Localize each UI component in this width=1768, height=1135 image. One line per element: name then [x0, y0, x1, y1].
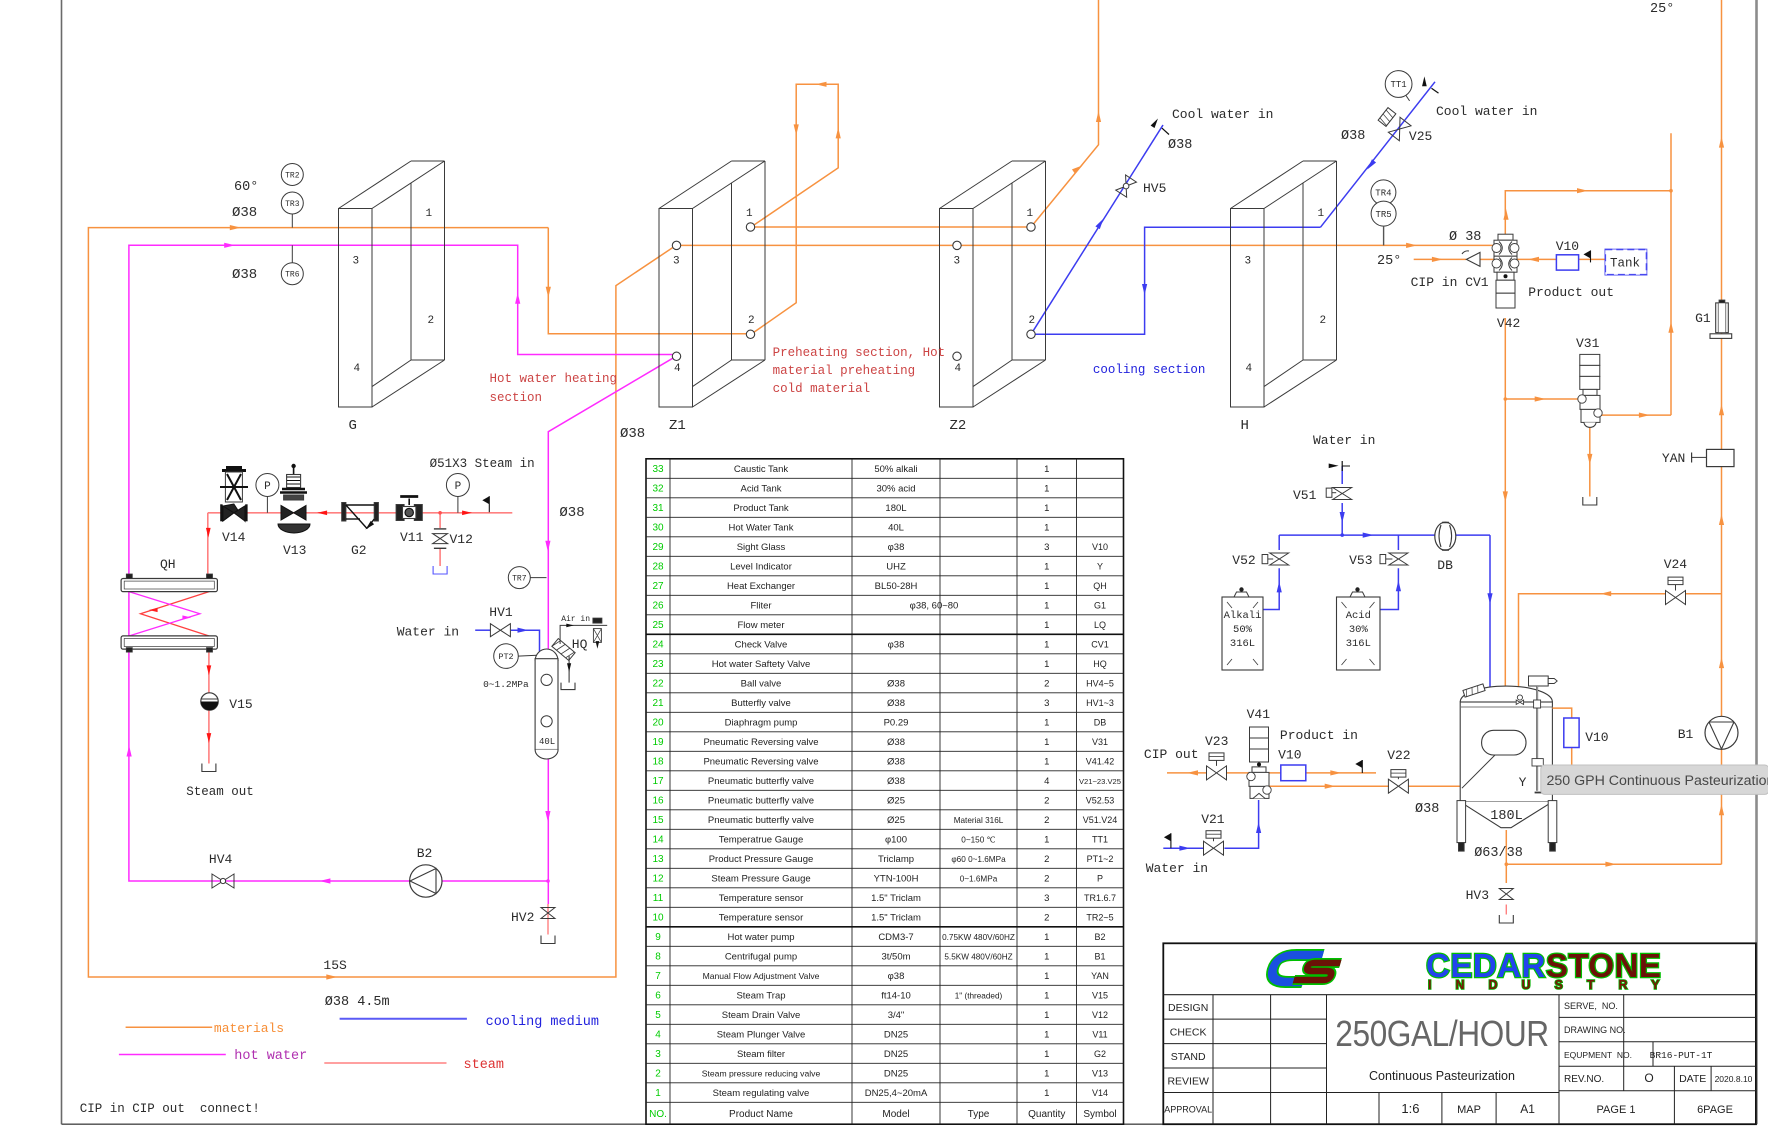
svg-text:Y: Y — [1097, 562, 1103, 572]
svg-text:4: 4 — [955, 363, 962, 375]
svg-text:V23: V23 — [1205, 734, 1228, 749]
svg-text:4: 4 — [674, 363, 681, 375]
pipe: CIP in line — [1414, 258, 1466, 260]
svg-text:DB: DB — [1094, 718, 1107, 728]
valve V21 — [1201, 812, 1225, 855]
alkali tank — [1222, 587, 1263, 670]
svg-text:2: 2 — [1320, 315, 1327, 327]
svg-text:1: 1 — [1044, 581, 1049, 592]
svg-text:SERVE, NO.: SERVE, NO. — [1564, 1001, 1618, 1011]
svg-text:Steam pressure reducing valve: Steam pressure reducing valve — [702, 1069, 821, 1079]
svg-text:4: 4 — [1246, 363, 1253, 375]
svg-text:180L: 180L — [1490, 809, 1522, 824]
tooltip overlay 250GPH — [1541, 765, 1768, 794]
svg-text:0~1.6MPa: 0~1.6MPa — [960, 875, 998, 884]
svg-text:3: 3 — [1044, 698, 1049, 709]
svg-text:50%: 50% — [1233, 624, 1253, 636]
svg-text:1: 1 — [1044, 1030, 1049, 1041]
legend — [119, 1015, 599, 1073]
svg-text:1: 1 — [1044, 1049, 1049, 1060]
svg-text:O: O — [1644, 1071, 1653, 1085]
svg-text:25°: 25° — [1377, 254, 1401, 269]
steam out drain — [202, 764, 216, 772]
svg-text:1" (threaded): 1" (threaded) — [955, 992, 1003, 1001]
pipe: main product line Z1 port3 to V42 — [676, 244, 1494, 246]
svg-text:3: 3 — [353, 256, 360, 268]
heat exchanger G — [339, 161, 445, 434]
flow arrows (steam) — [206, 510, 472, 743]
svg-text:Steam Pressure Gauge: Steam Pressure Gauge — [711, 874, 810, 885]
cool water out arrow+tick — [1151, 107, 1274, 153]
svg-text:4: 4 — [1044, 776, 1049, 787]
svg-text:Fliter: Fliter — [750, 601, 771, 612]
svg-text:LQ: LQ — [1094, 620, 1106, 630]
label hot water heating section — [490, 372, 618, 405]
svg-text:TT1: TT1 — [1092, 835, 1108, 845]
svg-text:3: 3 — [1044, 893, 1049, 904]
svg-text:B1: B1 — [1678, 727, 1694, 742]
svg-text:Product Tank: Product Tank — [733, 503, 789, 514]
svg-text:Continuous Pasteurization: Continuous Pasteurization — [1369, 1069, 1515, 1083]
svg-text:B2: B2 — [417, 846, 433, 861]
svg-text:316L: 316L — [1230, 638, 1255, 650]
svg-text:TR4: TR4 — [1375, 189, 1391, 199]
svg-text:12: 12 — [652, 874, 664, 885]
drain below V12 — [433, 566, 447, 574]
svg-text:Pneumatic butterfly valve: Pneumatic butterfly valve — [708, 796, 814, 807]
svg-text:1: 1 — [1044, 562, 1049, 573]
heat exchanger QH — [121, 557, 217, 652]
svg-text:materials: materials — [214, 1021, 284, 1036]
drain below HV2 — [541, 936, 555, 944]
temperature transmitter TT1 — [1385, 71, 1412, 101]
water inlet flag (V51) — [1329, 461, 1350, 471]
sample flag (product in) — [1355, 760, 1362, 773]
svg-text:steam: steam — [464, 1058, 505, 1073]
valve V12 (steam drain valve) — [433, 529, 473, 548]
svg-text:section: section — [490, 391, 543, 405]
svg-text:40L: 40L — [888, 523, 904, 534]
svg-text:CDM3-7: CDM3-7 — [878, 932, 913, 943]
svg-text:V25: V25 — [1409, 129, 1432, 144]
filter G1 — [1695, 300, 1732, 338]
sight glass V10 (product in) — [1281, 765, 1306, 781]
svg-text:30% acid: 30% acid — [876, 484, 915, 495]
svg-text:HV3: HV3 — [1466, 888, 1489, 903]
svg-text:Ø38: Ø38 — [887, 757, 905, 768]
svg-text:Butterfly valve: Butterfly valve — [731, 698, 791, 709]
cool water in arrow+tick (top) — [1422, 76, 1537, 119]
heat exchanger H — [1231, 161, 1337, 434]
svg-text:13: 13 — [652, 854, 664, 865]
svg-text:2: 2 — [748, 315, 755, 327]
valve V23 — [1205, 734, 1228, 780]
svg-text:V21~23.V25: V21~23.V25 — [1079, 777, 1121, 786]
svg-text:CHECK: CHECK — [1170, 1026, 1207, 1038]
svg-text:cooling medium: cooling medium — [486, 1015, 599, 1030]
svg-text:2: 2 — [1044, 679, 1049, 690]
valve V22 — [1387, 748, 1410, 793]
svg-text:HV5: HV5 — [1143, 181, 1166, 196]
water inlet flag (V21) — [1164, 833, 1171, 848]
svg-text:V10: V10 — [1092, 542, 1108, 552]
svg-text:Pneumatic Reversing valve: Pneumatic Reversing valve — [703, 757, 818, 768]
sample flag on steam line — [482, 496, 489, 512]
svg-text:φ38, 60~80: φ38, 60~80 — [910, 601, 959, 612]
pipe: riser x1671 — [1670, 133, 1672, 415]
svg-text:EQUPMENT NO.: EQUPMENT NO. — [1564, 1050, 1632, 1060]
svg-text:QH: QH — [160, 557, 176, 572]
svg-text:30%: 30% — [1349, 624, 1369, 636]
svg-text:2: 2 — [1044, 854, 1049, 865]
svg-text:Centrifugal pump: Centrifugal pump — [725, 952, 797, 963]
sample flag (product out) — [1584, 250, 1591, 262]
svg-text:20: 20 — [652, 718, 664, 729]
svg-text:24: 24 — [652, 640, 664, 651]
svg-text:P: P — [264, 481, 271, 493]
svg-text:V24: V24 — [1664, 557, 1688, 572]
valve V24 — [1664, 557, 1688, 605]
svg-text:YAN: YAN — [1662, 451, 1685, 466]
svg-text:CV1: CV1 — [1091, 640, 1109, 650]
svg-text:REVIEW: REVIEW — [1167, 1075, 1209, 1087]
svg-text:1: 1 — [1044, 523, 1049, 534]
svg-text:Pneumatic butterfly valve: Pneumatic butterfly valve — [708, 815, 814, 826]
svg-text:Ø25: Ø25 — [887, 815, 905, 826]
pipe: HV1 water in line — [475, 629, 490, 631]
svg-text:V10: V10 — [1556, 239, 1579, 254]
svg-text:YTN-100H: YTN-100H — [874, 874, 919, 885]
svg-text:material preheating: material preheating — [773, 364, 916, 378]
svg-text:A1: A1 — [1520, 1102, 1535, 1116]
svg-text:P: P — [1097, 874, 1103, 884]
svg-text:V13: V13 — [283, 543, 306, 558]
svg-text:15: 15 — [652, 815, 664, 826]
svg-text:1: 1 — [1044, 620, 1049, 631]
svg-text:G2: G2 — [351, 543, 367, 558]
svg-text:Hot Water Tank: Hot Water Tank — [729, 523, 794, 534]
svg-text:APPROVAL: APPROVAL — [1164, 1104, 1212, 1114]
svg-text:Ø38: Ø38 — [887, 737, 905, 748]
svg-text:Cool water in: Cool water in — [1436, 104, 1537, 119]
svg-text:Ø38: Ø38 — [1415, 802, 1439, 817]
strainer G2 (steam filter) — [342, 503, 379, 559]
valve V31 (pneumatic reversing) — [1576, 336, 1602, 427]
svg-text:V13: V13 — [1092, 1069, 1108, 1079]
svg-text:Hot water heating: Hot water heating — [490, 372, 618, 386]
svg-text:G2: G2 — [1094, 1049, 1106, 1059]
svg-text:10: 10 — [652, 913, 664, 924]
svg-text:1: 1 — [1044, 1010, 1049, 1021]
svg-text:15S: 15S — [323, 958, 347, 973]
svg-text:BL50-28H: BL50-28H — [875, 581, 918, 592]
svg-text:1: 1 — [1044, 932, 1049, 943]
svg-text:9: 9 — [655, 932, 661, 943]
svg-text:19: 19 — [652, 737, 664, 748]
svg-text:cooling section: cooling section — [1093, 363, 1206, 377]
svg-text:1:6: 1:6 — [1401, 1101, 1419, 1116]
svg-text:V10: V10 — [1278, 748, 1301, 763]
svg-text:2: 2 — [1044, 913, 1049, 924]
svg-text:Steam Drain Valve: Steam Drain Valve — [722, 1010, 801, 1021]
svg-text:V15: V15 — [1092, 991, 1108, 1001]
svg-text:Y: Y — [1519, 775, 1527, 790]
svg-text:Cool water in: Cool water in — [1172, 107, 1273, 122]
svg-text:Alkali: Alkali — [1224, 610, 1262, 622]
svg-text:316L: 316L — [1346, 638, 1371, 650]
valve HV2 — [511, 908, 555, 926]
svg-text:1: 1 — [1044, 991, 1049, 1002]
svg-text:TR1.6.7: TR1.6.7 — [1084, 893, 1116, 903]
svg-text:REV.NO.: REV.NO. — [1564, 1074, 1604, 1085]
svg-text:29: 29 — [652, 542, 664, 553]
svg-text:HQ: HQ — [572, 637, 588, 652]
svg-text:DN25: DN25 — [884, 1049, 908, 1060]
diaphragm pump DB — [1435, 522, 1456, 573]
acid tank — [1337, 587, 1381, 670]
heat exchanger Z2 — [940, 161, 1046, 434]
svg-text:φ38: φ38 — [888, 971, 905, 982]
svg-text:TT1: TT1 — [1390, 80, 1406, 90]
svg-text:P: P — [455, 481, 462, 493]
svg-text:31: 31 — [652, 503, 664, 514]
svg-text:5: 5 — [655, 1010, 661, 1021]
svg-text:DN25: DN25 — [884, 1030, 908, 1041]
valve V52 — [1232, 553, 1288, 568]
svg-text:Temperatrue Gauge: Temperatrue Gauge — [719, 835, 804, 846]
svg-text:V52.53: V52.53 — [1086, 796, 1115, 806]
pressure gauge P (steam) — [256, 474, 279, 513]
pipe: hot water loop — [129, 245, 676, 904]
svg-text:Steam filter: Steam filter — [737, 1049, 785, 1060]
parts list table — [646, 459, 1124, 1124]
svg-text:50% alkali: 50% alkali — [874, 464, 917, 475]
svg-text:1: 1 — [1044, 464, 1049, 475]
pump B2 — [410, 846, 442, 897]
svg-text:Temperature sensor: Temperature sensor — [719, 913, 803, 924]
hot water tank 40L — [535, 649, 558, 759]
svg-text:Steam Plunger Valve: Steam Plunger Valve — [717, 1030, 806, 1041]
svg-text:HV4: HV4 — [209, 852, 233, 867]
svg-text:G: G — [349, 418, 357, 434]
flow arrows (hot water) — [127, 243, 551, 884]
svg-text:1: 1 — [1044, 971, 1049, 982]
svg-text:V14: V14 — [1092, 1088, 1108, 1098]
svg-text:φ60 0~1.6MPa: φ60 0~1.6MPa — [951, 855, 1006, 864]
pipe: V31 drain leg — [1589, 427, 1591, 497]
pipe: V41 to V10 to sample flag — [1265, 772, 1376, 774]
svg-text:30: 30 — [652, 523, 664, 534]
svg-text:Tank: Tank — [1610, 257, 1640, 271]
svg-text:DESIGN: DESIGN — [1168, 1002, 1208, 1014]
svg-text:1: 1 — [1044, 835, 1049, 846]
svg-text:HV4~5: HV4~5 — [1086, 679, 1114, 689]
svg-text:6: 6 — [655, 991, 661, 1002]
svg-text:TR5: TR5 — [1375, 210, 1391, 220]
svg-text:NO.: NO. — [649, 1109, 667, 1120]
svg-text:0~150 ℃: 0~150 ℃ — [961, 836, 995, 845]
svg-text:TR7: TR7 — [512, 574, 527, 583]
svg-text:Symbol: Symbol — [1083, 1109, 1116, 1120]
label preheating section — [773, 346, 946, 396]
svg-text:1: 1 — [1044, 640, 1049, 651]
svg-text:UHZ: UHZ — [886, 562, 906, 573]
svg-text:Product out: Product out — [1528, 285, 1614, 300]
svg-text:3/4": 3/4" — [888, 1010, 905, 1021]
svg-text:Ø38: Ø38 — [887, 698, 905, 709]
svg-text:0~1.2MPa: 0~1.2MPa — [483, 679, 529, 690]
svg-text:180L: 180L — [885, 503, 906, 514]
flow arrows (cooling) — [518, 159, 1493, 851]
svg-text:V42: V42 — [1497, 316, 1520, 331]
svg-text:11: 11 — [653, 893, 664, 904]
svg-text:HV1~3: HV1~3 — [1086, 698, 1114, 708]
pipe: tank bottom to pump B1 riser — [1506, 830, 1721, 864]
pipe: cooling Z2 port2 to H port1 — [1031, 227, 1321, 334]
check valve CV1 — [1462, 251, 1480, 267]
steam trap V15 — [201, 693, 253, 712]
svg-text:DB: DB — [1437, 558, 1453, 573]
svg-text:Sight Glass: Sight Glass — [737, 542, 786, 553]
svg-text:DN25: DN25 — [884, 1069, 908, 1080]
svg-text:Preheating section, Hot: Preheating section, Hot — [773, 346, 946, 360]
pipe: V24 bypass — [1685, 593, 1722, 595]
svg-text:MAP: MAP — [1457, 1104, 1481, 1116]
svg-text:V41: V41 — [1247, 707, 1271, 722]
svg-text:Hot water Saftety Valve: Hot water Saftety Valve — [712, 659, 811, 670]
valve V53 — [1349, 553, 1408, 568]
valve HV4 — [209, 852, 234, 888]
svg-text:2020.8.10: 2020.8.10 — [1715, 1074, 1753, 1084]
svg-text:26: 26 — [652, 601, 664, 612]
svg-text:Ø38 4.5m: Ø38 4.5m — [325, 995, 390, 1010]
svg-text:Ø38: Ø38 — [559, 505, 584, 521]
svg-text:1: 1 — [1044, 1069, 1049, 1080]
svg-text:Ø51X3 Steam in: Ø51X3 Steam in — [430, 457, 535, 471]
title block — [1163, 943, 1756, 1124]
temperature sensor TR7 — [508, 567, 546, 589]
svg-text:INDUSTRY: INDUSTRY — [1428, 978, 1683, 992]
svg-text:Check Valve: Check Valve — [735, 640, 788, 651]
svg-text:CIP in CIP out connect!: CIP in CIP out connect! — [80, 1102, 260, 1116]
svg-text:Ø38: Ø38 — [887, 776, 905, 787]
svg-text:Temperature sensor: Temperature sensor — [719, 893, 803, 904]
svg-text:Diaphragm pump: Diaphragm pump — [725, 718, 798, 729]
cedarstone logo — [1269, 947, 1683, 992]
svg-text:φ100: φ100 — [885, 835, 907, 846]
svg-text:B1: B1 — [1094, 952, 1105, 962]
svg-text:250 GPH Continuous Pasteurizat: 250 GPH Continuous Pasteurization — [1547, 773, 1768, 789]
svg-text:hot water: hot water — [234, 1049, 307, 1064]
svg-text:G1: G1 — [1094, 601, 1106, 611]
svg-text:2: 2 — [1044, 874, 1049, 885]
svg-text:Quantity: Quantity — [1028, 1109, 1065, 1120]
svg-text:1: 1 — [655, 1088, 661, 1099]
svg-text:14: 14 — [652, 835, 664, 846]
svg-text:Product Name: Product Name — [729, 1109, 793, 1120]
svg-text:1: 1 — [1044, 718, 1049, 729]
safety valve HQ — [552, 637, 588, 690]
svg-text:1: 1 — [1044, 737, 1049, 748]
svg-text:32: 32 — [652, 484, 664, 495]
svg-text:3: 3 — [1044, 542, 1049, 553]
svg-text:Ø38: Ø38 — [1341, 129, 1365, 144]
pipe: Z2 port1 riser to top — [1031, 0, 1099, 227]
svg-text:Ø 38: Ø 38 — [1449, 230, 1481, 245]
temperature sensor TR6 — [281, 245, 303, 284]
svg-text:7: 7 — [655, 971, 661, 982]
pump B1 — [1678, 716, 1738, 749]
svg-text:40L: 40L — [539, 737, 555, 747]
valve V13 (steam pressure reducing valve) — [278, 464, 310, 558]
pipe: V42 down to product tank — [1504, 318, 1506, 696]
valve V51 — [1293, 488, 1352, 504]
svg-text:21: 21 — [652, 698, 664, 709]
svg-text:CIP in CV1: CIP in CV1 — [1411, 275, 1489, 290]
svg-text:Ø63/38: Ø63/38 — [1474, 846, 1523, 861]
svg-text:28: 28 — [652, 562, 664, 573]
temperature sensor TR2 — [281, 164, 303, 186]
svg-text:TR2~5: TR2~5 — [1086, 913, 1113, 923]
svg-text:3: 3 — [1245, 256, 1252, 268]
svg-text:27: 27 — [652, 581, 664, 592]
svg-text:V41.42: V41.42 — [1086, 757, 1115, 767]
svg-text:V52: V52 — [1232, 553, 1255, 568]
svg-text:3: 3 — [655, 1049, 661, 1060]
svg-text:4: 4 — [655, 1030, 661, 1041]
svg-text:1: 1 — [1044, 1088, 1049, 1099]
pipe: steam main — [208, 513, 1507, 935]
svg-text:YAN: YAN — [1091, 971, 1109, 981]
svg-text:Air in: Air in — [561, 615, 590, 624]
valve HV5 — [1116, 175, 1167, 197]
svg-text:33: 33 — [652, 464, 664, 475]
svg-text:Ball valve: Ball valve — [741, 679, 782, 690]
svg-text:B2: B2 — [1094, 932, 1105, 942]
svg-text:Ø38: Ø38 — [232, 267, 257, 283]
svg-text:6PAGE: 6PAGE — [1697, 1104, 1733, 1116]
svg-text:DRAWING NO.: DRAWING NO. — [1564, 1025, 1626, 1035]
svg-text:23: 23 — [652, 659, 664, 670]
svg-text:17: 17 — [652, 776, 664, 787]
pipe: Z1 recirculation loop above — [751, 84, 838, 334]
svg-text:ft14-10: ft14-10 — [881, 991, 911, 1002]
valve V14 (steam regulating valve) — [220, 468, 248, 546]
svg-text:2: 2 — [655, 1069, 661, 1080]
heat exchanger Z1 — [659, 161, 765, 434]
valve V41 (pneumatic reversing) — [1247, 707, 1272, 798]
svg-text:Ø25: Ø25 — [887, 796, 905, 807]
svg-text:Flow meter: Flow meter — [738, 620, 785, 631]
svg-text:V22: V22 — [1387, 748, 1410, 763]
pipe: product in line V41 to V22 to tank — [1265, 785, 1389, 787]
pipe: CIP manifold V51/V52/V53/DB — [1263, 466, 1490, 691]
svg-text:3: 3 — [954, 256, 961, 268]
svg-text:V10: V10 — [1585, 730, 1608, 745]
svg-text:CIP out: CIP out — [1144, 747, 1199, 762]
svg-text:3: 3 — [673, 256, 680, 268]
svg-text:3t/50m: 3t/50m — [881, 952, 910, 963]
pipe: water in to V21 to V41 — [1163, 800, 1258, 848]
svg-text:1: 1 — [1044, 601, 1049, 612]
Tank dashed box — [1605, 250, 1646, 275]
svg-text:V15: V15 — [229, 697, 252, 712]
svg-text:P0.29: P0.29 — [884, 718, 909, 729]
svg-text:φ38: φ38 — [888, 542, 905, 553]
drain below V31 — [1583, 497, 1597, 505]
svg-text:Ø38: Ø38 — [620, 426, 645, 442]
svg-text:PT1~2: PT1~2 — [1087, 854, 1114, 864]
